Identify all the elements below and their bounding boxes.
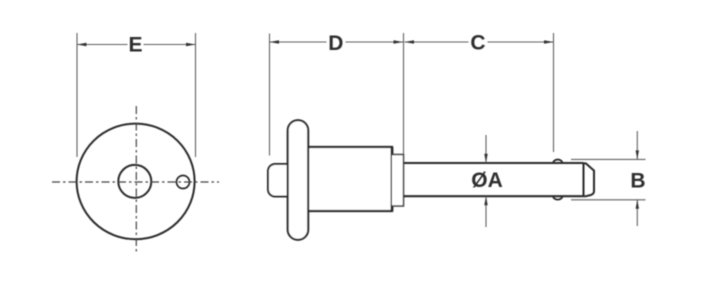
dim D extension line left	[269, 34, 271, 156]
button	[268, 164, 296, 197]
horizontal centerline	[52, 181, 219, 183]
body	[308, 147, 392, 211]
bottom locking ball	[553, 196, 562, 199]
dia A arrow top	[484, 154, 487, 163]
dim E arrow right	[186, 43, 196, 46]
collar	[392, 155, 404, 207]
shaft top line	[404, 162, 584, 164]
svg-text:ØA: ØA	[471, 169, 503, 192]
center hole	[118, 165, 151, 198]
head circle	[77, 124, 195, 240]
top locking ball	[553, 160, 562, 163]
dim C dimension line	[405, 41, 469, 43]
dia A leader top	[485, 135, 487, 163]
dim C arrow right	[544, 40, 554, 43]
dim B dimension line bottom	[636, 200, 638, 226]
svg-text:B: B	[630, 170, 645, 193]
dim C arrow left	[405, 40, 415, 43]
tip nose	[584, 163, 595, 196]
dim B extension line top	[571, 158, 646, 160]
dim B arrow top	[636, 150, 639, 159]
dim D arrow left	[270, 40, 280, 43]
vertical centerline	[135, 106, 137, 252]
dim B dimension line top	[636, 131, 638, 159]
dia A arrow bottom	[484, 196, 487, 205]
dim C extension line right	[553, 33, 555, 152]
dia A leader bottom	[485, 196, 487, 227]
tip groove line	[583, 163, 585, 196]
svg-text:C: C	[470, 32, 485, 55]
svg-text:E: E	[128, 34, 142, 57]
dim B arrow bottom	[636, 200, 639, 209]
dim B extension line bottom	[571, 199, 646, 201]
dim E dimension line	[77, 44, 128, 46]
ball hole (front view)	[177, 176, 190, 189]
dim E arrow left	[77, 43, 87, 46]
body shoulder edge	[391, 147, 394, 211]
flange (handle capsule)	[288, 120, 309, 240]
shaft bottom line	[404, 195, 584, 197]
dim E extension line left	[76, 33, 78, 157]
svg-text:D: D	[328, 32, 343, 55]
dim D arrow right	[394, 40, 404, 43]
dim E extension line right	[195, 33, 197, 157]
dim D/C extension line middle	[403, 33, 405, 154]
dim D dimension line	[270, 41, 327, 43]
